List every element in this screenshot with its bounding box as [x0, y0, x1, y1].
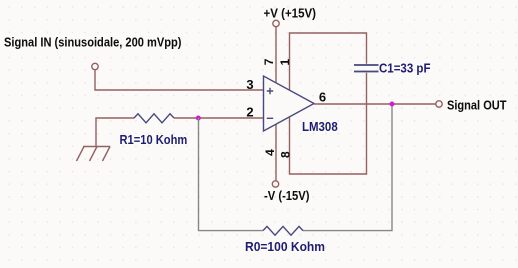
- value label R0: [245, 239, 325, 254]
- wire node B down to feedback: [303, 104, 392, 231]
- node Signal IN label: [4, 35, 182, 50]
- wire pin 1 to C1 top: [290, 33, 367, 91]
- terminal +V: [273, 20, 279, 26]
- ground: [77, 147, 111, 162]
- svg-text:C1=33 pF: C1=33 pF: [379, 61, 431, 76]
- svg-text:LM308: LM308: [302, 119, 338, 134]
- terminal Signal OUT: [436, 101, 442, 107]
- terminal Signal IN: [92, 63, 98, 69]
- svg-text:4: 4: [263, 149, 277, 156]
- wire pin 4 to -V: [275, 124, 277, 181]
- power -V label: [264, 188, 310, 203]
- node Signal OUT label: [447, 98, 507, 113]
- wire R1 to node A: [174, 117, 199, 119]
- svg-text:R0=100 Kohm: R0=100 Kohm: [245, 239, 325, 254]
- capacitor C1: [354, 65, 379, 72]
- svg-text:Signal OUT: Signal OUT: [447, 98, 507, 113]
- svg-text:R1=10 Kohm: R1=10 Kohm: [120, 132, 188, 147]
- pin 7 label: [262, 58, 276, 65]
- value label LM308: [302, 119, 338, 134]
- svg-text:-V (-15V): -V (-15V): [264, 188, 310, 203]
- pin 8 label: [278, 151, 292, 158]
- junction node B: [390, 102, 395, 107]
- svg-text:1: 1: [278, 59, 292, 66]
- wire pin 6 to Signal OUT: [314, 103, 436, 105]
- value label R1: [120, 132, 188, 147]
- wire Signal IN to pin 3: [95, 70, 263, 90]
- junction node A: [196, 116, 201, 121]
- svg-text:Signal IN (sinusoidale, 200 mV: Signal IN (sinusoidale, 200 mVpp): [4, 35, 182, 50]
- resistor R0: [263, 226, 303, 235]
- wire ground to R1: [96, 118, 134, 147]
- pin 3 label: [246, 77, 253, 92]
- value label C1: [379, 61, 431, 76]
- terminal -V: [272, 181, 278, 187]
- pin 6 label: [319, 90, 326, 105]
- pin 2 label: [246, 105, 253, 120]
- svg-text:3: 3: [246, 77, 253, 92]
- pin 4 label: [263, 149, 277, 156]
- wire C1 bottom to pin 8: [290, 73, 367, 174]
- svg-text:+V (+15V): +V (+15V): [264, 6, 317, 21]
- wire +V to pin 7: [275, 27, 277, 84]
- pin 1 label: [278, 59, 292, 66]
- svg-text:7: 7: [262, 58, 276, 65]
- wire node A to pin 2: [199, 117, 264, 119]
- power +V label: [264, 6, 317, 21]
- svg-text:6: 6: [319, 90, 326, 105]
- svg-text:2: 2: [246, 105, 253, 120]
- wire R0 to node A: [199, 118, 264, 231]
- svg-text:8: 8: [278, 151, 292, 158]
- op-amp U1: [264, 76, 315, 131]
- resistor R1: [134, 114, 174, 123]
